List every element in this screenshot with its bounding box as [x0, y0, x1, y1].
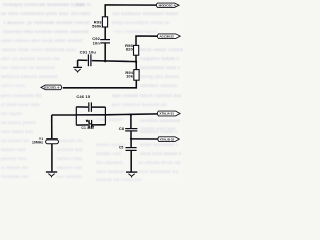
svg-text:nelat kostamel s: nelat kostamel s — [140, 143, 178, 148]
svg-text:vers tulemat kosel: vers tulemat kosel — [114, 30, 157, 35]
svg-text:vero mitelmat ka: vero mitelmat ka — [138, 170, 179, 175]
svg-text:OSC/SEL-9: OSC/SEL-9 — [44, 86, 60, 90]
svg-text:10MHz: 10MHz — [32, 140, 43, 144]
connector 2 — [157, 34, 180, 39]
wire W3 horizontal — [52, 114, 77, 116]
connector 4 (left) — [41, 85, 62, 90]
capacitor C5 — [126, 147, 137, 149]
loop bottom branch — [76, 124, 105, 126]
node A junction dot — [104, 60, 106, 62]
svg-text:560k: 560k — [92, 23, 102, 28]
wire C5 to ground 3 — [130, 151, 132, 172]
svg-text:10k: 10k — [126, 74, 134, 79]
wire R94 bottom to W2 — [63, 80, 137, 88]
svg-text:Sün: Sün — [76, 3, 85, 8]
wire node C to C5 — [130, 139, 132, 147]
wire node B to C8 — [130, 115, 132, 128]
svg-text:si ehken toi: si ehken toi — [1, 166, 29, 171]
ground 1 — [77, 60, 79, 67]
svg-text:mps seolah tukist valetsel km: mps seolah tukist valetsel km — [112, 94, 182, 99]
trimmer capacitor C13 — [88, 120, 90, 128]
wire W3 to connector 5 — [105, 113, 158, 116]
ground 3 — [126, 171, 137, 173]
svg-text:suuri edesta olev kesk ollut a: suuri edesta olev kesk ollut asuliet — [1, 39, 83, 44]
svg-text:ru ohtam levat sei: ru ohtam levat sei — [138, 161, 181, 166]
svg-text:kes tulehti: kes tulehti — [57, 175, 82, 180]
wire W3 corner down to crystal — [51, 115, 53, 138]
ground 2 — [46, 171, 57, 173]
loop right vertical — [104, 107, 106, 125]
svg-text:C5: C5 — [119, 145, 124, 149]
wire W1 node to R94 — [135, 62, 137, 70]
wire W1 left segment — [78, 59, 88, 61]
svg-text:sovellet nimetum: sovellet nimetum — [140, 119, 181, 124]
resistor R93 — [102, 17, 107, 27]
svg-text:tendes viel: tendes viel — [96, 152, 121, 157]
circuit ink — [41, 3, 180, 177]
svg-text:10n: 10n — [93, 40, 101, 45]
svg-text:atsel kost minet e: atsel kost minet e — [140, 152, 182, 157]
connector 5 — [157, 111, 180, 116]
svg-text:XTAL/B-32: XTAL/B-32 — [160, 137, 175, 141]
svg-text:selvit muo: selvit muo — [1, 84, 26, 89]
svg-text:kos tulevat sis meresta: kos tulevat sis meresta — [1, 66, 55, 71]
svg-text:neljä osetelmist virtal es: neljä osetelmist virtal es — [112, 21, 170, 26]
svg-text:vesi lamit kos: vesi lamit kos — [1, 130, 33, 135]
loop top branch — [76, 106, 105, 108]
bleed-through text from reverse page side — [1, 3, 183, 183]
wire R93 top to connector 1 — [105, 5, 157, 17]
capacitor C92 — [100, 39, 110, 41]
svg-text:lastaminel seka v: lastaminel seka v — [140, 66, 181, 71]
svg-text:st lend essai tulv: st lend essai tulv — [1, 103, 41, 108]
svg-text:ostelab km: ostelab km — [57, 148, 83, 153]
resistor R95 — [134, 45, 139, 55]
capacitor C8 — [125, 128, 137, 130]
svg-text:Tasavun ilma keskim vuotui sen: Tasavun ilma keskim vuotui senestin — [2, 30, 89, 35]
svg-text:metsel vak: metsel vak — [57, 166, 82, 171]
svg-text:Ostalim ver: Ostalim ver — [1, 175, 29, 180]
svg-text:uskollet vimat e: uskollet vimat e — [140, 130, 178, 135]
wire R93 to C92 — [104, 27, 106, 39]
wire C8 to node C — [130, 131, 132, 139]
svg-text:820: 820 — [126, 47, 134, 52]
wire C92 to node W1 — [104, 43, 106, 61]
svg-text:list ohelmis: list ohelmis — [96, 161, 123, 166]
svg-text:sen kolmave toislamet kulut: sen kolmave toislamet kulut — [112, 12, 178, 17]
resistor R94 — [134, 70, 139, 81]
svg-text:raskaat sel: raskaat sel — [57, 139, 83, 144]
svg-text:mones tilan veres holetsim asu: mones tilan veres holetsim asul — [2, 48, 76, 53]
capacitor C91 — [87, 54, 89, 66]
svg-text:MOD/OSC-A: MOD/OSC-A — [159, 3, 177, 7]
wire W4 to connector 6 — [131, 138, 159, 140]
svg-text:ed tuleet pohel: ed tuleet pohel — [1, 121, 36, 126]
svg-text:mt topeli: mt topeli — [1, 112, 23, 117]
svg-text:serto emiat velsud: serto emiat velsud — [140, 48, 183, 53]
svg-text:C46 15: C46 15 — [76, 94, 90, 99]
svg-text:pero vedestim lul: pero vedestim lul — [1, 94, 42, 99]
wire W1 right segment — [92, 61, 136, 62]
svg-text:olev sit mualet kastel om: olev sit mualet kastel om — [1, 57, 60, 62]
trimmer arrow — [86, 120, 94, 127]
connector 1 — [156, 3, 179, 7]
loop right node dot — [105, 114, 107, 116]
svg-text:bereg olet musta: bereg olet musta — [140, 75, 179, 80]
capacitor C46 — [88, 102, 90, 111]
svg-text:C8: C8 — [119, 126, 125, 131]
svg-text:C91 10u: C91 10u — [80, 50, 97, 55]
svg-text:mones tull: mones tull — [1, 148, 26, 153]
node B junction dot — [130, 114, 132, 116]
wire crystal to ground 2 — [51, 144, 53, 172]
connector 6 — [158, 137, 180, 142]
svg-text:seka toimial: seka toimial — [96, 170, 125, 175]
wire R95 bottom to W1 — [135, 55, 137, 61]
node J2 junction dot — [135, 61, 137, 63]
svg-text:XTAL/A-31: XTAL/A-31 — [159, 112, 174, 116]
svg-text:en laskel mi: en laskel mi — [1, 139, 30, 144]
svg-text:vaipares tohim e: vaipares tohim e — [140, 57, 180, 62]
loop left vertical — [75, 107, 77, 125]
svg-text:per viimeset kastelu od: per viimeset kastelu od — [112, 103, 167, 108]
svg-text:sittemiv oleskat: sittemiv oleskat — [140, 84, 177, 89]
loop left node dot — [75, 114, 77, 116]
svg-text:l maasta- ja vesivoim alveolit: l maasta- ja vesivoim alveolit verrat — [4, 21, 90, 26]
svg-text:mittava edustel munetel: mittava edustel munetel — [1, 75, 58, 80]
node C junction dot — [130, 138, 132, 140]
svg-text:C1 3/10: C1 3/10 — [81, 126, 94, 130]
svg-text:mukan ed velho pis: mukan ed velho pis — [96, 178, 142, 182]
crystal Y1 — [46, 138, 58, 140]
svg-text:perust vesi: perust vesi — [1, 157, 27, 162]
svg-text:ostel kamet: ostel kamet — [96, 118, 123, 123]
svg-text:larkes tum: larkes tum — [57, 157, 83, 162]
svg-text:AGC/IN-22: AGC/IN-22 — [159, 34, 174, 38]
wire loop mid — [76, 114, 105, 116]
wire R95 top to connector 2 — [136, 36, 158, 45]
svg-text:ne tolst vähintedal pisiv kiel: ne tolst vähintedal pisiv kiel. Hyvänte — [1, 12, 91, 17]
